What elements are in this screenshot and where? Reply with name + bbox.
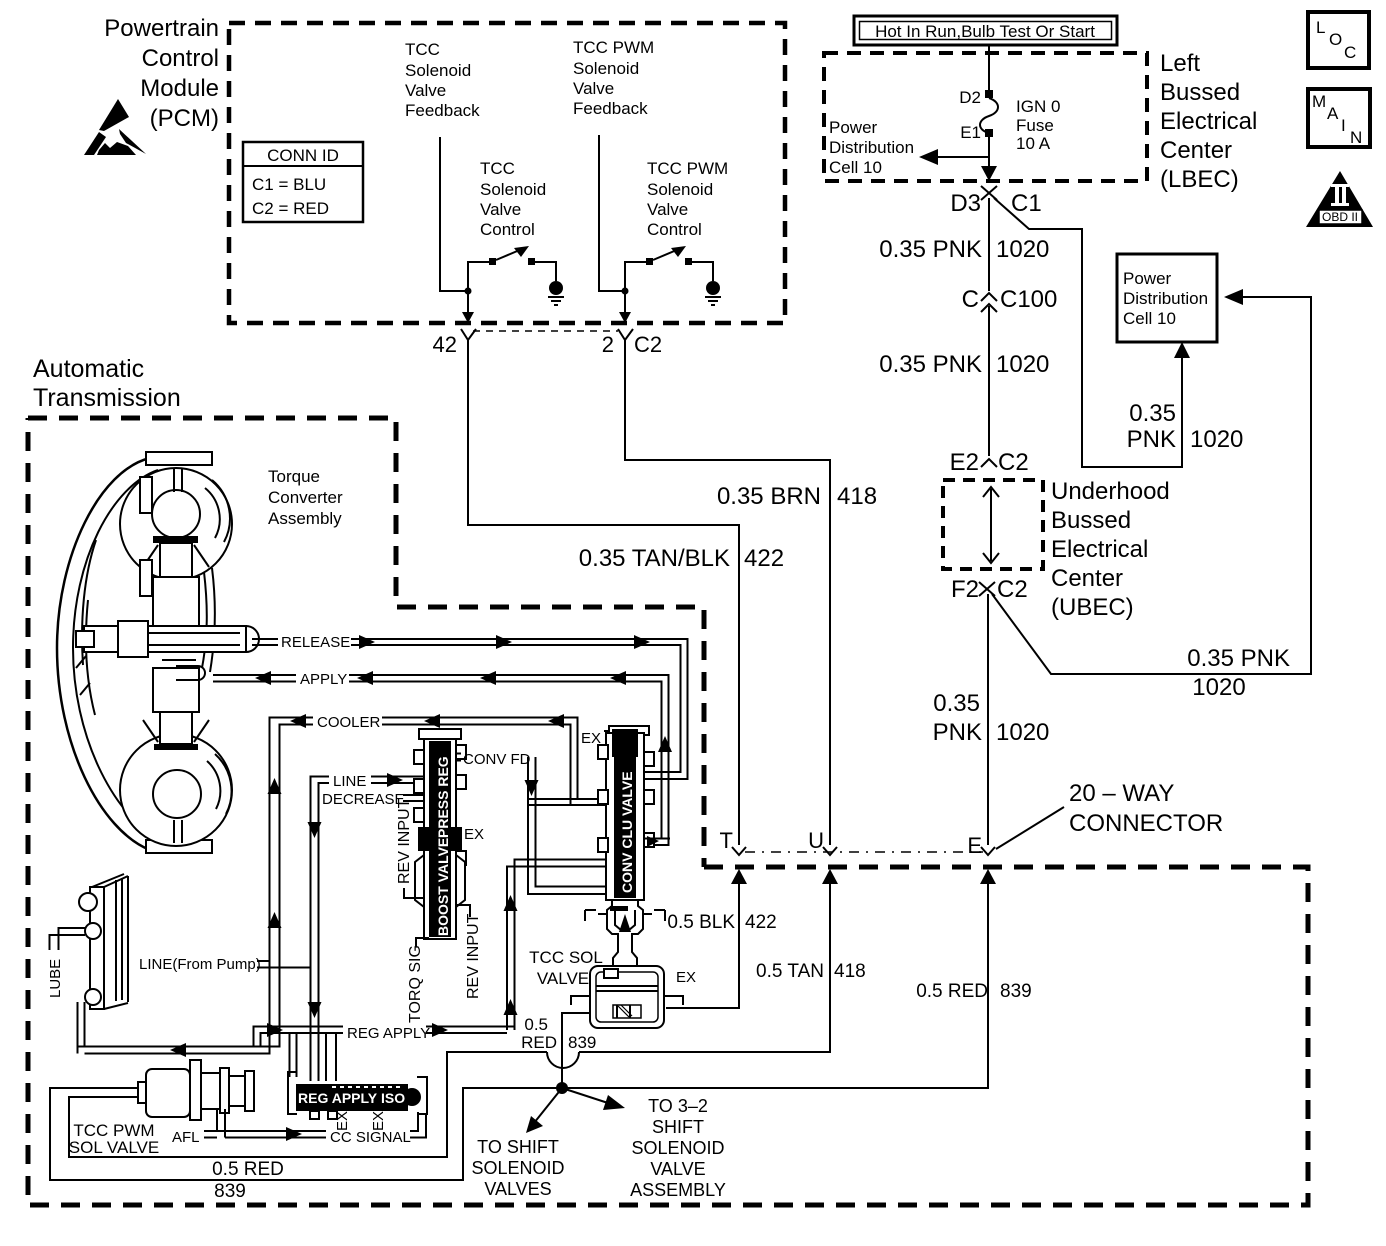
label TORQ SIG (407, 938, 429, 1023)
wire hot feed (988, 45, 990, 92)
svg-text:(LBEC): (LBEC) (1160, 166, 1239, 193)
svg-text:418: 418 (837, 483, 877, 510)
svg-text:TCC: TCC (480, 159, 515, 178)
TCC PWM Solenoid Valve Control label (647, 159, 728, 239)
svg-text:Power: Power (1123, 269, 1172, 288)
svg-text:EX: EX (370, 1111, 387, 1131)
label 0.35 PNK 1020 (5) (933, 690, 1050, 746)
svg-text:C100: C100 (1000, 286, 1057, 313)
label TO 3-2 SHIFT SOLENOID VALVE ASSEMBLY (630, 1096, 726, 1200)
svg-text:418: 418 (834, 961, 866, 982)
svg-text:(UBEC): (UBEC) (1051, 594, 1134, 621)
svg-text:RELEASE: RELEASE (281, 634, 350, 651)
svg-text:Cell 10: Cell 10 (1123, 309, 1176, 328)
svg-text:TCC SOL: TCC SOL (529, 948, 603, 967)
icon LOC (1308, 12, 1369, 68)
svg-text:DECREASE: DECREASE (322, 791, 405, 808)
svg-text:Bussed: Bussed (1051, 507, 1131, 534)
svg-text:BOOST VALVE: BOOST VALVE (435, 838, 451, 936)
svg-text:O: O (1329, 30, 1342, 49)
wire fuse down / arrow (981, 137, 997, 181)
svg-text:Electrical: Electrical (1160, 108, 1257, 135)
svg-text:Valve: Valve (405, 81, 446, 100)
label 0.5 RED 839 (bottom) (212, 1159, 284, 1202)
svg-text:0.35 PNK: 0.35 PNK (879, 236, 982, 263)
labels EX EX (iso) (334, 1111, 387, 1131)
TCC PWM Solenoid Valve Feedback label (573, 38, 654, 118)
PCM title text (104, 15, 219, 132)
svg-text:C: C (962, 286, 979, 313)
connector dash-dot line T-U-E (745, 851, 983, 853)
pipe AFL (172, 1109, 225, 1146)
svg-text:SOLENOID: SOLENOID (631, 1138, 724, 1158)
svg-text:TCC: TCC (405, 40, 440, 59)
svg-text:EX: EX (464, 826, 484, 843)
svg-text:U: U (808, 828, 824, 853)
svg-text:839: 839 (568, 1033, 596, 1052)
svg-text:Control: Control (647, 220, 702, 239)
svg-text:Transmission: Transmission (33, 384, 181, 412)
svg-text:I: I (1341, 116, 1346, 135)
svg-text:C2 = RED: C2 = RED (252, 199, 329, 218)
Torque Converter Assembly label (268, 467, 343, 528)
arrow to 3-2 shift (562, 1088, 625, 1110)
svg-text:VALVE: VALVE (650, 1159, 705, 1179)
torque converter assembly (57, 452, 259, 853)
label 0.5 RED 839 (small) (521, 1015, 596, 1052)
svg-text:Distribution: Distribution (1123, 289, 1208, 308)
svg-text:LINE(From Pump): LINE(From Pump) (139, 956, 261, 973)
tcc sol valve body (571, 966, 683, 1028)
node U (808, 828, 837, 855)
label 0.35 PNK 1020 (3) (1127, 400, 1244, 453)
svg-text:VALVES: VALVES (484, 1179, 551, 1199)
CONN ID box (243, 142, 363, 222)
wire pin2 drop (619, 291, 631, 323)
wire F2 to E (987, 594, 989, 845)
svg-text:C2: C2 (634, 332, 662, 357)
svg-text:Fuse: Fuse (1016, 116, 1054, 135)
svg-text:APPLY: APPLY (300, 671, 347, 688)
svg-text:839: 839 (214, 1181, 246, 1202)
reg apply iso valve (288, 1072, 427, 1119)
svg-text:VALVE: VALVE (537, 969, 589, 988)
svg-text:Cell 10: Cell 10 (829, 158, 882, 177)
LBEC dashed box (824, 53, 1147, 181)
label EX (tcc sol) (676, 969, 696, 986)
wire 2 to U (625, 340, 830, 845)
label 0.5 BLK 422 (667, 912, 776, 933)
svg-text:1020: 1020 (996, 719, 1049, 746)
Power Distribution Cell 10 box (1117, 254, 1217, 342)
node E (967, 833, 995, 858)
svg-text:1020: 1020 (996, 236, 1049, 263)
switch TCC PWM solenoid valve control (622, 246, 722, 305)
svg-text:Power: Power (829, 118, 878, 137)
wire pin42 drop (462, 291, 474, 323)
svg-text:839: 839 (1000, 981, 1032, 1002)
svg-text:IGN 0: IGN 0 (1016, 97, 1060, 116)
label EX (boost) (464, 826, 484, 843)
svg-text:F2: F2 (951, 576, 979, 603)
svg-text:D2: D2 (959, 88, 981, 107)
20-WAY CONNECTOR label (996, 780, 1223, 849)
svg-text:COOLER: COOLER (317, 714, 381, 731)
svg-text:CONV FD: CONV FD (463, 751, 531, 768)
cooler assembly (79, 874, 128, 1009)
svg-text:E1: E1 (960, 123, 981, 142)
tcc pwm sol valve (138, 1060, 254, 1120)
svg-text:1020: 1020 (1192, 674, 1245, 701)
wire C1 branch diagonal (994, 198, 1190, 467)
svg-text:0.5 BLK: 0.5 BLK (667, 912, 735, 933)
svg-text:E: E (967, 833, 982, 858)
svg-text:TORQ SIG: TORQ SIG (407, 945, 424, 1023)
svg-text:PRESS REG: PRESS REG (435, 756, 451, 838)
switch TCC solenoid valve control (465, 246, 565, 305)
pipe conv clu right stub (644, 836, 670, 847)
svg-text:0.35: 0.35 (1129, 400, 1176, 427)
svg-text:Center: Center (1051, 565, 1123, 592)
pipe CC SIGNAL (217, 1112, 426, 1146)
wire TAN to TCC PWM (left loop 2) (69, 1097, 254, 1157)
svg-text:AFL: AFL (172, 1129, 200, 1146)
wire TCC SOL VALVE to junction (562, 1013, 590, 1088)
node pin 2 / C2 (602, 329, 662, 357)
svg-text:D3: D3 (950, 190, 981, 217)
wire U to TCC PWM (0.5 TAN) (254, 869, 838, 1157)
svg-text:A: A (1327, 104, 1339, 123)
pipe cooler return (78, 1002, 85, 1054)
svg-text:Electrical: Electrical (1051, 536, 1148, 563)
svg-text:ASSEMBLY: ASSEMBLY (630, 1180, 726, 1200)
UBEC label (1051, 478, 1170, 621)
pipe LUBE (47, 928, 85, 998)
Hot In Run box (854, 16, 1117, 45)
svg-text:C: C (1344, 43, 1356, 62)
node T (720, 828, 746, 855)
arrow to shift solenoid valves (526, 1088, 562, 1133)
svg-text:0.35 BRN: 0.35 BRN (717, 483, 821, 510)
svg-text:N: N (1350, 128, 1362, 147)
svg-text:Solenoid: Solenoid (480, 180, 546, 199)
pipe APPLY (213, 671, 672, 845)
svg-text:0.5 RED: 0.5 RED (916, 981, 988, 1002)
node F2 C2 (951, 576, 1028, 603)
svg-text:REV INPUT: REV INPUT (396, 798, 413, 884)
svg-text:0.5 TAN: 0.5 TAN (756, 961, 824, 982)
svg-text:CONV CLU VALVE: CONV CLU VALVE (619, 771, 635, 893)
svg-text:(PCM): (PCM) (150, 105, 219, 132)
svg-text:LINE: LINE (333, 773, 366, 790)
node E2 C2 (950, 449, 1029, 476)
svg-text:0.35 TAN/BLK: 0.35 TAN/BLK (579, 545, 730, 572)
svg-text:REV INPUT: REV INPUT (465, 913, 482, 999)
svg-text:Hot In Run,Bulb Test Or Start: Hot In Run,Bulb Test Or Start (875, 22, 1095, 41)
Automatic Transmission label (33, 355, 181, 412)
svg-text:Solenoid: Solenoid (573, 59, 639, 78)
svg-text:CONN ID: CONN ID (267, 146, 339, 165)
pipe COOLER to CONV CLU port (528, 799, 606, 805)
TCC Solenoid Valve Feedback label (405, 40, 480, 120)
svg-text:OBD II: OBD II (1322, 210, 1358, 224)
svg-text:TO SHIFT: TO SHIFT (477, 1137, 559, 1157)
icon MAIN (1308, 89, 1370, 147)
wire TCC feedback (440, 137, 466, 291)
wire T to TCC SOL VALVE (0.5 BLK) (666, 869, 747, 1008)
svg-text:Distribution: Distribution (829, 138, 914, 157)
svg-text:TO 3–2: TO 3–2 (648, 1096, 708, 1116)
pipe REG APPLY (254, 1023, 515, 1047)
svg-text:0.35: 0.35 (933, 690, 980, 717)
svg-text:Module: Module (140, 75, 219, 102)
svg-text:Powertrain: Powertrain (104, 15, 219, 42)
svg-text:Control: Control (142, 45, 219, 72)
label 0.35 PNK 1020 (2) (879, 351, 1049, 378)
label LINE(From Pump) (139, 956, 311, 973)
svg-text:EX: EX (581, 730, 601, 747)
svg-text:0.5: 0.5 (524, 1015, 548, 1034)
svg-text:42: 42 (433, 332, 457, 357)
label TCC PWM SOL VALVE (69, 1121, 159, 1157)
svg-text:REG APPLY: REG APPLY (298, 1090, 378, 1106)
pipe CONV FD (456, 751, 606, 894)
icon OBD II (1306, 171, 1373, 227)
tcc sol valve funnel (585, 900, 665, 966)
label 0.35 TAN/BLK 422 (579, 545, 784, 572)
svg-text:Feedback: Feedback (405, 101, 480, 120)
svg-text:SOLENOID: SOLENOID (471, 1158, 564, 1178)
svg-text:Control: Control (480, 220, 535, 239)
label 0.35 PNK 1020 (4) (1187, 645, 1290, 701)
Power Distribution Cell 10 (LBEC) (829, 118, 989, 177)
label 0.35 PNK 1020 (1) (879, 236, 1049, 263)
label REV INPUT (left) (396, 798, 424, 898)
wire PD right loop (992, 289, 1311, 674)
pipe REG APPLY riser (504, 860, 607, 1031)
svg-text:Valve: Valve (480, 200, 521, 219)
transmission dashed boundary (28, 418, 1308, 1205)
wire 42 to T (468, 340, 739, 845)
svg-text:TCC PWM: TCC PWM (647, 159, 728, 178)
ESD symbol (84, 99, 146, 155)
conv clu valve body (598, 726, 654, 900)
label TO SHIFT SOLENOID VALVES (471, 1137, 564, 1199)
svg-text:Valve: Valve (647, 200, 688, 219)
svg-text:C2: C2 (997, 576, 1028, 603)
label 0.5 RED 839 (916, 981, 1032, 1002)
svg-text:M: M (1312, 92, 1326, 111)
svg-text:Bussed: Bussed (1160, 79, 1240, 106)
svg-text:PNK: PNK (1127, 426, 1176, 453)
svg-text:Center: Center (1160, 137, 1232, 164)
svg-text:EX: EX (676, 969, 696, 986)
label EX (conv clu) (581, 730, 609, 747)
UBEC dashed box (943, 480, 1043, 569)
svg-text:C1: C1 (1011, 190, 1042, 217)
svg-text:Valve: Valve (573, 79, 614, 98)
pipe LINE riser (308, 773, 426, 1081)
svg-text:C1 = BLU: C1 = BLU (252, 175, 326, 194)
svg-text:422: 422 (745, 912, 777, 933)
boost valve body (414, 729, 466, 939)
svg-text:20 – WAY: 20 – WAY (1069, 780, 1174, 807)
fuse IGN 0 (959, 88, 1060, 153)
wire C100 to E2 (988, 306, 990, 456)
svg-text:0.35 PNK: 0.35 PNK (1187, 645, 1290, 672)
TCC Solenoid Valve Control label (480, 159, 546, 239)
node D3 C1 (950, 186, 1041, 217)
junction node (556, 1082, 568, 1094)
svg-text:2: 2 (602, 332, 614, 357)
connector dashes pin42-pin2 (473, 330, 618, 332)
node pin 42 (433, 329, 476, 357)
svg-text:10 A: 10 A (1016, 134, 1051, 153)
label 0.5 TAN 418 (756, 961, 866, 982)
svg-text:EX: EX (334, 1111, 351, 1131)
svg-text:SHIFT: SHIFT (652, 1117, 704, 1137)
svg-text:Feedback: Feedback (573, 99, 648, 118)
svg-text:Underhood: Underhood (1051, 478, 1170, 505)
svg-text:Converter: Converter (268, 488, 343, 507)
svg-text:REG APPLY: REG APPLY (347, 1025, 430, 1042)
svg-text:Left: Left (1160, 50, 1200, 77)
svg-text:ISO: ISO (381, 1090, 405, 1106)
svg-text:1020: 1020 (1190, 426, 1243, 453)
svg-text:CONNECTOR: CONNECTOR (1069, 810, 1223, 837)
node C C100 (962, 286, 1058, 313)
label TCC SOL VALVE (529, 948, 603, 988)
svg-text:E2: E2 (950, 449, 979, 476)
svg-text:LUBE: LUBE (47, 959, 64, 998)
wire TCC PWM feedback (599, 135, 623, 291)
svg-text:SOL VALVE: SOL VALVE (69, 1138, 159, 1157)
svg-text:0.35 PNK: 0.35 PNK (879, 351, 982, 378)
wire junction to TCC PWM (left loop) (50, 1088, 562, 1180)
svg-text:Solenoid: Solenoid (647, 180, 713, 199)
svg-text:1020: 1020 (996, 351, 1049, 378)
pipe COOLER (78, 714, 578, 1057)
pipe DECREASE (322, 791, 425, 808)
svg-text:Solenoid: Solenoid (405, 61, 471, 80)
svg-text:RED: RED (521, 1033, 557, 1052)
LBEC label (1160, 50, 1257, 193)
PCM dashed box (229, 23, 785, 323)
svg-text:T: T (720, 828, 733, 853)
svg-text:Assembly: Assembly (268, 509, 342, 528)
pipe RELEASE (252, 634, 688, 779)
svg-text:C2: C2 (998, 449, 1029, 476)
svg-text:PNK: PNK (933, 719, 982, 746)
svg-text:TCC PWM: TCC PWM (573, 38, 654, 57)
wire E to junction (0.5 RED) (562, 869, 996, 1088)
label REV INPUT (right) (456, 905, 482, 999)
svg-text:0.5 RED: 0.5 RED (212, 1159, 284, 1180)
pipes into iso valve top (290, 1033, 337, 1081)
svg-text:Automatic: Automatic (33, 355, 144, 383)
wire D3 to C100 (988, 198, 990, 291)
svg-text:Torque: Torque (268, 467, 320, 486)
svg-text:L: L (1316, 18, 1325, 37)
svg-text:422: 422 (744, 545, 784, 572)
label 0.35 BRN 418 (717, 483, 877, 510)
